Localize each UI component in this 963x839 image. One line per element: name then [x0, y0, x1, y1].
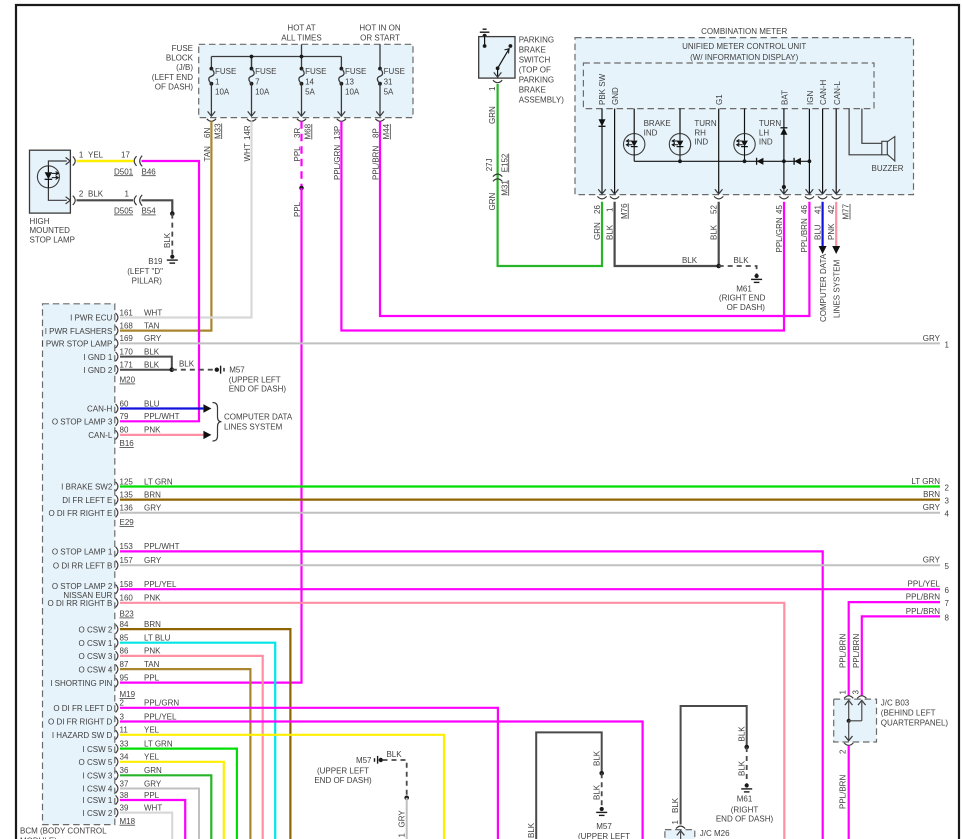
label HOT AT ALL TIMES	[281, 24, 321, 43]
svg-text:80: 80	[120, 426, 129, 435]
wire BLK meter pin1 and pin52 to M61	[615, 202, 719, 266]
svg-text:O DI FR RIGHT E: O DI FR RIGHT E	[48, 509, 112, 518]
svg-text:I PWR ECU: I PWR ECU	[70, 314, 112, 323]
svg-text:I CSW 3: I CSW 3	[83, 772, 113, 781]
svg-text:IGN: IGN	[806, 91, 815, 105]
wire BLK dashed to M61 ground	[719, 266, 757, 274]
meter connector arc	[779, 196, 788, 199]
BCM pin 86 PNK	[79, 647, 162, 661]
svg-text:PPL/BRN: PPL/BRN	[838, 775, 847, 809]
meter connector arc	[597, 196, 606, 199]
svg-text:PNK: PNK	[144, 426, 161, 435]
svg-text:PARKING: PARKING	[519, 36, 554, 45]
wire BLK dashed to ground M57 lower	[601, 773, 603, 807]
meter connector arc	[805, 196, 814, 199]
svg-text:B54: B54	[142, 207, 157, 216]
ground M61 right end of dash	[751, 274, 762, 283]
svg-text:GRY: GRY	[923, 334, 941, 343]
label TURN LH IND	[759, 119, 781, 147]
buzzer	[849, 109, 895, 161]
fuse F1 10A	[208, 67, 237, 117]
label 6N / M33	[203, 123, 223, 139]
wire TAN fuse1 to BCM pin 168	[120, 121, 211, 330]
svg-text:FUSE: FUSE	[172, 44, 193, 53]
svg-text:BLK: BLK	[592, 784, 601, 800]
svg-text:FUSE: FUSE	[215, 67, 236, 76]
svg-text:161: 161	[120, 308, 134, 317]
svg-text:STOP LAMP: STOP LAMP	[30, 235, 76, 244]
wire PPL/BRN exit 7 to J/C B03 pin 1	[849, 602, 940, 696]
BCM pin 169 GRY	[41, 334, 161, 348]
wire BLK BCM 171	[120, 369, 172, 371]
G1 internal line	[715, 109, 723, 194]
svg-text:2: 2	[945, 484, 950, 493]
svg-text:PPL/YEL: PPL/YEL	[144, 712, 177, 721]
svg-text:PPL/WHT: PPL/WHT	[144, 542, 180, 551]
svg-text:GRY: GRY	[144, 556, 162, 565]
svg-text:PPL/BRN: PPL/BRN	[838, 634, 847, 668]
svg-text:O DI FR RIGHT D: O DI FR RIGHT D	[48, 718, 113, 727]
J/C M26 pin 1 connector	[676, 826, 685, 839]
svg-text:BUZZER: BUZZER	[872, 164, 904, 173]
wire LT GRN BCM 125 to exit 2	[120, 485, 940, 487]
BCM pin 87 TAN	[79, 660, 160, 674]
J/C B03 internal junction	[847, 719, 862, 723]
wire PPL/YEL BCM 158 to exit 6	[120, 588, 940, 590]
svg-text:NISSAN EUR: NISSAN EUR	[63, 591, 112, 600]
label PPL/BRN rotated pin3	[852, 634, 861, 668]
svg-text:B16: B16	[120, 439, 135, 448]
svg-text:GRN: GRN	[488, 193, 497, 211]
svg-text:M33: M33	[213, 123, 222, 139]
svg-text:42: 42	[827, 205, 836, 214]
svg-text:87: 87	[120, 660, 129, 669]
BCM pin 85 LT BLU	[79, 634, 171, 648]
wire TAN BCM 87	[120, 669, 250, 839]
label COMBINATION METER	[701, 27, 787, 36]
BCM pin 80 PNK	[88, 426, 161, 440]
svg-text:CAN-L: CAN-L	[833, 80, 842, 105]
exit label PPL/BRN 8	[906, 607, 950, 623]
fuse F7 10A	[248, 67, 277, 117]
indicator lamp TURNLH	[734, 109, 755, 162]
svg-text:O CSW 5: O CSW 5	[79, 758, 113, 767]
svg-text:PILLAR): PILLAR)	[132, 276, 163, 285]
svg-text:8: 8	[945, 613, 950, 622]
connector arc below fuse F1	[207, 119, 216, 122]
svg-text:5: 5	[945, 562, 950, 571]
svg-text:O DI RR RIGHT B: O DI RR RIGHT B	[48, 599, 113, 608]
svg-text:O STOP LAMP 3: O STOP LAMP 3	[52, 418, 113, 427]
svg-text:1: 1	[79, 150, 84, 159]
BCM pin 136 GRY	[48, 504, 161, 518]
parking brake switch contacts and blade	[483, 36, 513, 77]
ground B19	[167, 255, 178, 264]
svg-text:IND: IND	[644, 128, 658, 137]
BCM pin 79 PPL/WHT	[52, 412, 180, 426]
svg-text:DI FR LEFT E: DI FR LEFT E	[62, 496, 112, 505]
svg-text:(UPPER LEFT: (UPPER LEFT	[229, 375, 281, 384]
label 27J / E152 / M31	[485, 153, 509, 196]
svg-text:(RIGHT: (RIGHT	[731, 805, 759, 814]
BCM body control module box	[43, 304, 115, 825]
svg-text:I CSW 1: I CSW 1	[83, 796, 113, 805]
label BCM (BODY CONTROL MODULE)	[20, 827, 107, 839]
meter connector arc	[610, 196, 619, 199]
svg-text:85: 85	[120, 634, 129, 643]
svg-text:1: 1	[839, 690, 848, 695]
svg-text:45: 45	[775, 205, 784, 214]
svg-text:M68: M68	[303, 123, 312, 139]
J/C B03 pin 3 connector	[857, 696, 866, 721]
svg-text:END OF DASH): END OF DASH)	[314, 776, 372, 785]
svg-text:5A: 5A	[384, 88, 394, 97]
svg-text:PPL/BRN: PPL/BRN	[800, 218, 809, 252]
svg-text:BLK: BLK	[179, 360, 195, 369]
svg-text:OF DASH): OF DASH)	[155, 82, 194, 91]
svg-text:YEL: YEL	[144, 726, 160, 735]
meter pin wire color labels rotated	[593, 217, 836, 252]
svg-text:GRN: GRN	[488, 106, 497, 124]
connector arc below fuse F7	[247, 119, 256, 122]
svg-text:39: 39	[120, 803, 129, 812]
parking brake pin connector arc	[493, 80, 502, 83]
svg-text:52: 52	[710, 205, 719, 214]
label WHT	[243, 143, 252, 161]
svg-text:BLK: BLK	[671, 797, 680, 813]
svg-text:COMBINATION METER: COMBINATION METER	[701, 27, 787, 36]
J/C B03 pin 1 connector	[844, 696, 853, 721]
svg-text:O STOP LAMP 1: O STOP LAMP 1	[52, 548, 113, 557]
label PPL lower	[293, 201, 302, 217]
svg-text:BLK: BLK	[88, 190, 104, 199]
wire PNK BCM 86	[120, 656, 263, 839]
svg-text:1: 1	[488, 86, 497, 91]
inline connector D505/B54	[134, 195, 142, 206]
label PPL/GRN rotated	[333, 145, 342, 180]
svg-text:I GND 2: I GND 2	[83, 366, 112, 375]
label TAN	[203, 146, 212, 162]
label 3R / M68	[293, 123, 313, 139]
svg-text:RH: RH	[694, 128, 706, 137]
svg-text:14: 14	[305, 78, 314, 87]
svg-text:MOUNTED: MOUNTED	[30, 226, 71, 235]
svg-text:O CSW 3: O CSW 3	[79, 652, 113, 661]
label PPL/BRN rotated pin2	[838, 775, 847, 809]
label 13P	[333, 126, 342, 140]
svg-text:BLK: BLK	[605, 224, 614, 240]
svg-text:4: 4	[945, 510, 950, 519]
svg-text:1: 1	[125, 190, 130, 199]
svg-text:10A: 10A	[345, 88, 360, 97]
svg-text:2: 2	[79, 190, 84, 199]
svg-text:END OF DASH): END OF DASH)	[716, 815, 774, 824]
svg-text:PARKING: PARKING	[519, 76, 554, 85]
label BLK above dashes	[386, 750, 402, 759]
wire BLK dashed to B19	[171, 214, 173, 255]
svg-text:PPL/YEL: PPL/YEL	[144, 580, 177, 589]
svg-text:6: 6	[945, 586, 950, 595]
label BLK rotated	[163, 232, 172, 248]
svg-text:153: 153	[120, 542, 134, 551]
BAT internal line with diode	[780, 109, 788, 194]
label PPL/BRN rotated	[371, 146, 380, 180]
BCM pin 60 BLU	[87, 399, 160, 413]
fuse F31 5A	[376, 67, 405, 117]
wire GRY BCM 157 to exit 5	[120, 564, 940, 566]
svg-text:GRY: GRY	[398, 810, 407, 828]
svg-text:170: 170	[120, 347, 134, 356]
svg-text:E29: E29	[120, 518, 135, 527]
indicator lamp TURNRH	[669, 109, 690, 162]
label BLK rotated lower	[592, 784, 601, 800]
wire BLK BCM 170	[120, 357, 172, 370]
svg-text:17: 17	[121, 150, 130, 159]
BCM pin 160 PNK	[48, 594, 162, 608]
wire BLK dashed to M57	[172, 369, 213, 371]
wire PPL/GRN fuse13 to meter pin 45	[341, 121, 784, 330]
wire BLK stop lamp pin2	[77, 199, 134, 201]
exit label GRY 5	[923, 556, 950, 572]
wire PPL BCM 38	[120, 800, 185, 839]
label TURN RH IND	[694, 119, 716, 147]
svg-text:LINES SYSTEM: LINES SYSTEM	[833, 259, 842, 318]
label GRY 1 rotated	[398, 810, 407, 838]
svg-text:O CSW 1: O CSW 1	[79, 639, 113, 648]
svg-text:LINES SYSTEM: LINES SYSTEM	[224, 423, 283, 432]
junction dot GRY	[404, 796, 409, 801]
wire BLU CAN-H BCM 60	[120, 404, 211, 412]
wire LT BLU BCM 85	[120, 643, 275, 839]
wire BLU CAN-H computer data arrow	[819, 202, 827, 254]
svg-text:YEL: YEL	[88, 150, 104, 159]
svg-text:95: 95	[120, 673, 129, 682]
svg-text:BRN: BRN	[923, 490, 940, 499]
label BLK rotated on riser	[527, 822, 536, 838]
svg-text:HOT IN ON: HOT IN ON	[359, 24, 400, 33]
label 8P / M44	[371, 123, 391, 139]
meter connector arc	[714, 196, 723, 199]
wire WHT BCM 39	[120, 813, 172, 839]
svg-text:E152: E152	[500, 153, 509, 172]
svg-text:BRAKE: BRAKE	[644, 119, 671, 128]
svg-text:BLK: BLK	[527, 822, 536, 838]
wire BLK goalpost to M57 lower	[536, 732, 602, 839]
wire BRN BCM 135 to exit 3	[120, 499, 940, 501]
indicator lamp BRAKE	[624, 109, 645, 162]
svg-text:(UPPER LEFT: (UPPER LEFT	[317, 767, 369, 776]
svg-text:M61: M61	[737, 795, 753, 804]
label (UPPER LEFT END OF DASH) middle	[314, 767, 372, 785]
svg-text:I PWR FLASHERS: I PWR FLASHERS	[45, 327, 113, 336]
wire PPL fuse14 to BCM pin 95	[120, 188, 302, 683]
label M57 (UPPER LEFT...)	[578, 822, 630, 839]
svg-text:1: 1	[605, 207, 614, 212]
label HOT IN ON OR START	[359, 24, 400, 43]
wire PNK BCM 160	[120, 603, 784, 839]
svg-text:3: 3	[120, 712, 125, 721]
meter connector arc	[832, 196, 841, 199]
svg-text:(LEFT END: (LEFT END	[152, 73, 193, 82]
connector arc below fuse F31	[375, 119, 384, 122]
svg-text:3: 3	[852, 690, 861, 695]
svg-text:CAN-H: CAN-H	[87, 405, 113, 414]
svg-text:I CSW 2: I CSW 2	[83, 809, 113, 818]
GND internal line	[611, 109, 619, 194]
svg-text:I BRAKE SW2: I BRAKE SW2	[61, 483, 113, 492]
svg-text:(J/B): (J/B)	[176, 63, 193, 72]
label GRN rotated upper	[488, 106, 497, 124]
wire PPL/WHT BCM 153	[120, 551, 823, 839]
svg-text:O DI FR LEFT D: O DI FR LEFT D	[53, 704, 112, 713]
svg-text:BLK: BLK	[737, 760, 746, 776]
wire GRY BCM 169 to right exit 1	[120, 342, 940, 344]
indicator common bus	[634, 159, 811, 163]
svg-text:PPL: PPL	[144, 791, 160, 800]
wire YEL stop lamp pin1	[77, 160, 134, 162]
connector arc below fuse F13	[337, 119, 346, 122]
parking brake switch ground symbol	[480, 29, 490, 38]
svg-text:157: 157	[120, 556, 134, 565]
svg-text:PPL/GRN: PPL/GRN	[775, 217, 784, 252]
label J/C M26	[700, 829, 730, 838]
svg-text:BLU: BLU	[813, 224, 822, 240]
ground M57 lower	[596, 807, 607, 816]
wire PPL/BRN exit 8 to J/C B03 pin 3	[862, 616, 940, 695]
fuse F14 5A	[298, 67, 327, 117]
label BLK rotated on J/C M26 riser	[671, 797, 680, 813]
svg-text:PPL/BRN: PPL/BRN	[906, 593, 940, 602]
BCM pin 135 BRN	[62, 490, 161, 504]
svg-text:BLK: BLK	[734, 256, 750, 265]
svg-text:O DI RR LEFT B: O DI RR LEFT B	[53, 561, 112, 570]
svg-text:FUSE: FUSE	[345, 67, 366, 76]
svg-text:2: 2	[839, 749, 848, 754]
svg-text:WHT: WHT	[144, 308, 162, 317]
svg-text:46: 46	[800, 205, 809, 214]
svg-text:GRY: GRY	[923, 503, 941, 512]
wire BRN BCM 84	[120, 629, 290, 839]
svg-text:2: 2	[120, 699, 125, 708]
label M57 and splice symbol middle	[356, 756, 383, 765]
svg-text:OR START: OR START	[360, 34, 400, 43]
svg-text:I SHORTING PIN: I SHORTING PIN	[50, 679, 112, 688]
svg-text:J/C B03: J/C B03	[881, 699, 910, 708]
svg-text:BLOCK: BLOCK	[166, 54, 194, 63]
svg-text:SWITCH: SWITCH	[519, 56, 551, 65]
svg-text:M20: M20	[120, 376, 136, 385]
svg-text:BLU: BLU	[144, 399, 160, 408]
wire GRN BCM 36	[120, 775, 211, 839]
svg-text:TAN: TAN	[144, 321, 160, 330]
junction connector J/C B03 box	[834, 699, 877, 742]
svg-text:79: 79	[120, 412, 129, 421]
fuse block (J/B) box	[199, 44, 413, 117]
label COMPUTER DATA LINES SYSTEM rotated	[819, 253, 842, 322]
svg-text:ASSEMBLY): ASSEMBLY)	[519, 96, 565, 105]
svg-text:135: 135	[120, 490, 134, 499]
svg-text:LH: LH	[759, 128, 769, 137]
wire PPL dashed fuse14 upper segment	[300, 121, 302, 188]
svg-text:BRAKE: BRAKE	[519, 46, 546, 55]
svg-text:(BEHIND LEFT: (BEHIND LEFT	[881, 709, 936, 718]
svg-text:1: 1	[398, 833, 407, 838]
svg-text:BLK: BLK	[737, 726, 746, 742]
BCM pin 34 YEL	[79, 753, 160, 767]
label BUZZER	[872, 164, 904, 173]
svg-text:D501: D501	[114, 167, 134, 176]
svg-text:O CSW 4: O CSW 4	[79, 665, 113, 674]
svg-text:M57: M57	[596, 822, 612, 831]
svg-text:7: 7	[255, 78, 260, 87]
svg-text:B23: B23	[120, 610, 135, 619]
wire BLK goalpost to M61 lower	[681, 706, 747, 825]
svg-text:PNK: PNK	[144, 594, 161, 603]
svg-text:26: 26	[593, 205, 602, 214]
fuse F13 10A	[338, 67, 367, 117]
svg-text:37: 37	[120, 779, 129, 788]
svg-text:169: 169	[120, 334, 134, 343]
stop lamp internal wiring	[48, 157, 70, 204]
label PPL upper	[293, 146, 302, 162]
BCM pin 36 GRN	[83, 766, 162, 780]
label 1 rotated J/C M26	[671, 820, 680, 825]
svg-text:GRY: GRY	[144, 779, 162, 788]
svg-text:M31: M31	[500, 180, 509, 196]
label BLK rotated M61 dashed	[737, 760, 746, 776]
CAN-H internal line	[819, 109, 827, 194]
label BRAKE IND	[644, 119, 671, 137]
label pin2 BLK 1 D505 B54	[79, 190, 156, 216]
label 1 rotated	[488, 86, 497, 91]
meter pin labels rotated PBK SW GND G1 BAT IGN CAN-H CAN-L	[598, 73, 842, 105]
svg-text:M44: M44	[382, 123, 391, 139]
svg-text:41: 41	[813, 205, 822, 214]
exit label LT GRN 2	[911, 477, 949, 493]
junction dot BLK lower M57	[599, 771, 604, 776]
exit label BRN 3	[923, 490, 949, 506]
junction dot M61 lower	[744, 745, 749, 750]
BCM pin 38 PPL	[83, 791, 160, 805]
svg-text:1: 1	[945, 340, 950, 349]
wire PPL/GRN BCM 2	[120, 708, 498, 839]
svg-text:10A: 10A	[255, 88, 270, 97]
svg-text:(RIGHT END: (RIGHT END	[719, 294, 766, 303]
exit label GRY 4	[923, 503, 950, 519]
svg-text:OF DASH): OF DASH)	[727, 303, 766, 312]
svg-text:PNK: PNK	[144, 647, 161, 656]
junction connector J/C M26 box	[665, 830, 695, 839]
svg-text:BLK: BLK	[592, 750, 601, 766]
svg-text:G1: G1	[715, 94, 724, 105]
svg-text:J/C M26: J/C M26	[700, 829, 730, 838]
svg-text:YEL: YEL	[144, 753, 160, 762]
svg-text:COMPUTER DATA: COMPUTER DATA	[819, 253, 828, 322]
label BLK rotated M61 upper	[737, 726, 746, 742]
exit label GRY 1	[923, 334, 950, 350]
svg-text:38: 38	[120, 791, 129, 800]
svg-text:GND: GND	[611, 87, 620, 105]
BCM pin 153 PPL/WHT	[52, 542, 180, 556]
label BLK rotated upper	[592, 750, 601, 766]
svg-text:168: 168	[120, 321, 134, 330]
label UNIFIED METER CONTROL UNIT (W/ INFORMATION DISPLAY)	[682, 42, 806, 62]
svg-text:LT GRN: LT GRN	[144, 739, 173, 748]
svg-text:PPL/GRN: PPL/GRN	[144, 699, 179, 708]
IGN internal line	[806, 109, 814, 194]
svg-text:36: 36	[120, 766, 129, 775]
svg-text:1: 1	[215, 78, 220, 87]
